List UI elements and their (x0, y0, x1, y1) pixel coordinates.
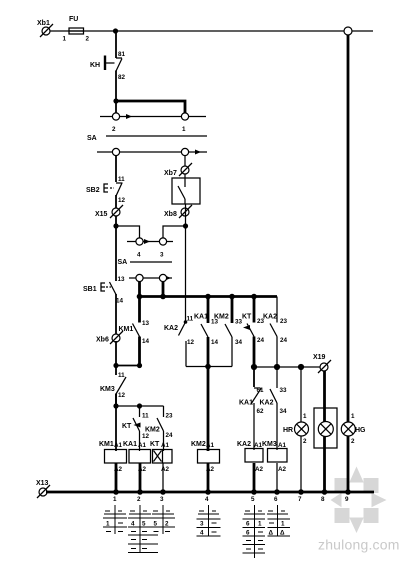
contact KA1 61-62 (NC) (239, 367, 264, 450)
coil KT (time relay) (150, 441, 172, 492)
svg-text:34: 34 (280, 408, 288, 415)
node bottom x140 (137, 489, 143, 495)
node y367 x301 (298, 364, 304, 370)
svg-text:KM3: KM3 (100, 386, 115, 393)
svg-text:1: 1 (281, 521, 285, 528)
svg-text:6: 6 (246, 530, 250, 537)
limit switch box (travel switch) (172, 178, 200, 204)
svg-text:33: 33 (280, 387, 288, 394)
wire left column through SB1 (115, 226, 117, 281)
svg-text:1: 1 (106, 521, 110, 528)
svg-text:4: 4 (200, 530, 204, 537)
coil KM3 (262, 441, 287, 492)
svg-text:23: 23 (166, 413, 174, 420)
wire thick jumper to right SA column (116, 101, 185, 113)
wire KM2 coil feed (207, 367, 210, 452)
wire elbow left node to SA row3 left (116, 226, 140, 238)
contact table column5 KA2 (243, 505, 266, 558)
node bottom x116 (113, 489, 119, 495)
svg-text:Xb8: Xb8 (164, 211, 177, 218)
switch SA row2 contacts (97, 148, 207, 155)
node y367 x277 (274, 364, 280, 370)
svg-text:1: 1 (113, 496, 117, 503)
node Xb8 bottom y226 (183, 223, 188, 228)
node bottom x208 (205, 489, 211, 495)
wire X19 lamp branch (323, 371, 326, 492)
node bus x232 (229, 294, 235, 300)
contact table column2 KA1 (128, 505, 158, 553)
wire top-right stub (352, 30, 373, 32)
node bus x163 (160, 294, 166, 300)
coil KM1 (99, 441, 127, 492)
node KH bottom junction (113, 98, 118, 103)
svg-text:11: 11 (118, 372, 125, 379)
svg-text:1: 1 (303, 413, 307, 420)
svg-text:A2: A2 (278, 466, 287, 473)
svg-text:zhulong.com: zhulong.com (318, 537, 400, 553)
wire right main vertical (347, 35, 350, 492)
svg-text:12: 12 (118, 197, 126, 204)
svg-text:KM2: KM2 (214, 314, 229, 321)
svg-text:Xb7: Xb7 (164, 170, 177, 177)
svg-text:2: 2 (137, 496, 141, 503)
wire right SA column to Xb7 (184, 156, 186, 179)
wire left column to coil KM1 (115, 394, 117, 451)
svg-text:14: 14 (211, 339, 219, 346)
svg-text:6: 6 (274, 496, 278, 503)
bus control (y296) (140, 295, 278, 298)
svg-text:SB2: SB2 (86, 187, 100, 194)
node bus x254 (251, 294, 257, 300)
terminal Xb7 (164, 163, 192, 177)
terminal Xb8 (164, 205, 192, 218)
wire SB2 column upper (115, 156, 117, 183)
svg-text:1: 1 (258, 521, 262, 528)
node bottom x348 (345, 489, 351, 495)
svg-text:KT: KT (150, 441, 160, 448)
switch SA divider line 2 (118, 259, 173, 266)
node y367 x254 (251, 364, 257, 370)
node bus x139 (137, 294, 143, 300)
switch SA row3 contacts (127, 238, 173, 259)
terminal X16 (96, 331, 123, 344)
coil KA1 (123, 441, 151, 492)
pushbutton SB1 (NO start) (83, 276, 125, 305)
switch SA row1 contacts (100, 113, 206, 133)
lamp HR (283, 413, 309, 445)
fuse FU (63, 16, 90, 43)
boxed lamp HL (314, 408, 337, 448)
switch SA row4 contacts (129, 274, 172, 281)
svg-text:A1: A1 (161, 442, 170, 449)
switch SA divider line 1 (87, 135, 207, 142)
svg-text:KA2: KA2 (237, 441, 251, 448)
node y366 x208 (205, 364, 211, 370)
svg-text:A2: A2 (161, 466, 170, 473)
svg-text:5: 5 (154, 521, 158, 528)
svg-text:KH: KH (90, 62, 100, 69)
contact KM1 (NO aux) (119, 297, 150, 366)
svg-text:24: 24 (280, 337, 288, 344)
svg-text:1: 1 (182, 126, 186, 133)
svg-text:KA2: KA2 (263, 314, 277, 321)
svg-text:KT: KT (122, 423, 132, 430)
contact KM3 11-12 (NO) on left column (100, 372, 126, 399)
svg-text:12: 12 (118, 392, 126, 399)
svg-text:A1: A1 (206, 442, 215, 449)
node bottom x324 (322, 489, 328, 495)
svg-text:1: 1 (351, 413, 355, 420)
svg-text:KA1: KA1 (194, 314, 208, 321)
svg-text:3: 3 (160, 252, 164, 259)
wire KH branch upper (115, 31, 117, 58)
svg-text:11: 11 (142, 413, 149, 420)
contact table column1 KM1 (103, 505, 127, 534)
svg-text:3: 3 (200, 521, 204, 528)
svg-text:KA2: KA2 (164, 325, 178, 332)
svg-text:4: 4 (205, 496, 209, 503)
svg-text:2: 2 (165, 521, 169, 528)
contact KT 11-12 (NO delayed) (122, 406, 150, 451)
svg-text:6: 6 (246, 521, 250, 528)
node bottom x301 (298, 489, 304, 495)
lamp HG on main right line (341, 413, 366, 445)
svg-text:2: 2 (303, 438, 307, 445)
svg-text:X19: X19 (313, 354, 326, 361)
wire y367 lamp feed (254, 366, 320, 368)
contact KA1 13-14 (NO) (194, 297, 219, 367)
terminal X13 (36, 480, 50, 498)
svg-text:5: 5 (251, 496, 255, 503)
terminal X19 (313, 354, 331, 373)
node KM1 bottom y365 (137, 363, 142, 368)
svg-text:A2: A2 (255, 466, 264, 473)
node y406 x139 (137, 403, 142, 408)
branch numbers under bus (113, 496, 349, 503)
svg-text:4: 4 (131, 521, 135, 528)
wire left column SB1 to X16 (115, 294, 117, 335)
contact KA2 33-34 (NO) (260, 367, 288, 450)
bus bottom (N rail) (46, 491, 374, 494)
wire sub-branch horizontal y406 (116, 405, 164, 407)
wire elbow Xb8 node to SA row3 right (163, 226, 186, 238)
node top-right (open circle) (344, 27, 352, 35)
svg-text:KM2: KM2 (191, 441, 206, 448)
svg-text:3: 3 (160, 496, 164, 503)
contact KA2 23-24 (NO) (263, 297, 288, 368)
terminal Xb1 (37, 20, 53, 37)
svg-text:Xb1: Xb1 (37, 20, 50, 27)
svg-text:Xb6: Xb6 (96, 337, 109, 344)
contact KA2 11-12 (NO) (164, 316, 195, 367)
svg-text:KM1: KM1 (99, 441, 114, 448)
wire SA row4 stubs to bus (138, 282, 141, 298)
node left y365 (113, 363, 118, 368)
svg-text:14: 14 (116, 298, 124, 305)
svg-text:A1: A1 (114, 442, 123, 449)
node bottom x277 (274, 489, 280, 495)
svg-text:KM2: KM2 (145, 427, 160, 434)
svg-text:14: 14 (142, 338, 150, 345)
svg-text:SB1: SB1 (83, 286, 97, 293)
coil KA2 (237, 441, 264, 492)
svg-text:X13: X13 (36, 480, 49, 487)
contact table column6 KM3 (267, 505, 290, 537)
svg-text:KA2: KA2 (260, 400, 274, 407)
svg-text:81: 81 (118, 51, 126, 58)
svg-text:23: 23 (280, 318, 288, 325)
wire KA2-12 elbow to node366 (186, 366, 208, 368)
svg-text:FU: FU (69, 16, 78, 23)
svg-text:12: 12 (187, 339, 195, 346)
svg-text:X15: X15 (95, 211, 108, 218)
svg-text:KM1: KM1 (119, 326, 134, 333)
svg-text:9: 9 (345, 496, 349, 503)
svg-text:11: 11 (187, 316, 194, 323)
pushbutton SB2 (NC stop) (86, 176, 126, 204)
svg-text:4: 4 (137, 252, 141, 259)
svg-text:A1: A1 (138, 442, 147, 449)
node bottom x163 (160, 489, 166, 495)
node left column y226 (113, 223, 118, 228)
svg-text:SA: SA (87, 135, 97, 142)
svg-text:2: 2 (86, 36, 90, 43)
node bottom x254 (251, 489, 257, 495)
svg-text:KA1: KA1 (123, 441, 137, 448)
svg-text:12: 12 (142, 433, 150, 440)
svg-text:5: 5 (142, 521, 146, 528)
node bus x208 (205, 294, 211, 300)
contact KT 23-24 (NO delayed) (242, 297, 265, 368)
contact KM2 33-34 (NO) (214, 297, 243, 367)
wire HR lamp branch (300, 367, 302, 492)
svg-text:24: 24 (166, 432, 174, 439)
wire KM2-34 elbow to node366 (208, 366, 232, 368)
contact table column4 KM2 (197, 505, 221, 537)
svg-text:2: 2 (112, 126, 116, 133)
thermal contact KH (NC) (90, 51, 126, 81)
coil KM2 (191, 441, 220, 492)
svg-text:SA: SA (118, 259, 128, 266)
svg-text:1: 1 (63, 36, 67, 43)
svg-text:7: 7 (298, 496, 302, 503)
wire SB2 to X15 (115, 195, 117, 226)
svg-text:KT: KT (242, 314, 252, 321)
wire left column X16 to node365 (115, 341, 117, 375)
svg-text:2: 2 (351, 438, 355, 445)
svg-text:13: 13 (142, 320, 150, 327)
svg-text:HR: HR (283, 427, 293, 434)
terminal X15 (95, 205, 123, 218)
svg-text:62: 62 (257, 408, 265, 415)
svg-text:HG: HG (355, 427, 366, 434)
wire L top rail (50, 30, 344, 32)
svg-text:34: 34 (235, 339, 243, 346)
node left y406 (113, 403, 118, 408)
svg-text:13: 13 (118, 276, 126, 283)
svg-text:Δ: Δ (280, 530, 285, 537)
svg-text:24: 24 (257, 337, 265, 344)
wire KM1 bottom to left column (116, 365, 140, 367)
wire Xb8 node down to KA2 contact (185, 204, 187, 322)
wire KH branch lower (115, 71, 117, 114)
svg-text:Δ: Δ (269, 530, 274, 537)
svg-text:11: 11 (118, 176, 125, 183)
watermark logo (decorative) (331, 467, 387, 534)
contact table column3 KT (151, 505, 175, 534)
svg-text:KM3: KM3 (262, 441, 277, 448)
contact KM2 23-24 (145, 406, 173, 451)
node top junction (113, 28, 118, 33)
svg-text:82: 82 (118, 74, 126, 81)
svg-text:8: 8 (321, 496, 325, 503)
